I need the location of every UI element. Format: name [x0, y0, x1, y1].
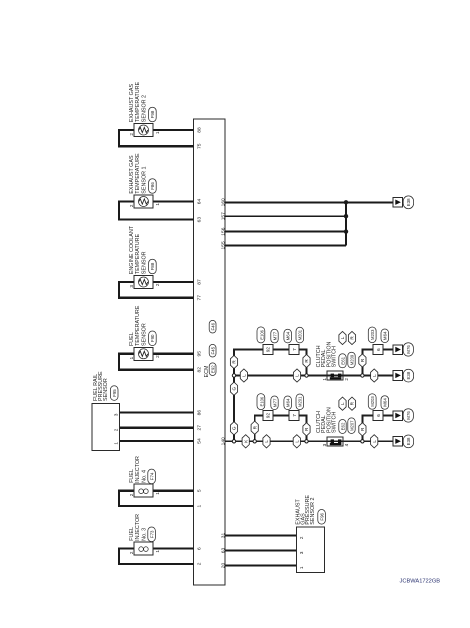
svg-text:JCBWA1722GB: JCBWA1722GB [400, 579, 441, 585]
svg-text:1: 1 [155, 131, 160, 134]
bus wire [345, 202, 347, 245]
exhaust gas pressure sensor 2 [295, 495, 325, 573]
wire pin 155 [225, 244, 346, 246]
svg-text:INJECTOR: INJECTOR [135, 514, 141, 541]
hexagon L [371, 369, 378, 382]
off-page arrow to E38 (bus) [393, 196, 414, 209]
exhaust gas temperature sensor 2 [129, 81, 160, 136]
ECM pin numbers bottom edge [221, 198, 227, 568]
junction dot [344, 214, 348, 218]
connector E38 [403, 435, 413, 448]
svg-text:TEMPERATURE: TEMPERATURE [135, 233, 141, 274]
svg-text:SENSOR: SENSOR [103, 378, 109, 401]
pass-through terminal 92 [263, 410, 273, 420]
connector M201 [296, 327, 304, 343]
switch S1 contact box [327, 437, 343, 446]
svg-text:M64: M64 [286, 398, 291, 407]
option hexagons row A left [230, 382, 310, 448]
fuel rail pressure sensor [92, 371, 119, 450]
connector M64 [381, 396, 389, 410]
connector M76 [403, 409, 413, 422]
svg-text:M203: M203 [370, 329, 375, 340]
connector M76 [403, 343, 413, 356]
connector F86 [149, 179, 157, 194]
svg-text:E106: E106 [260, 396, 265, 406]
svg-text:M203: M203 [370, 396, 375, 407]
row B after-switch elements [359, 327, 389, 382]
svg-text:M209: M209 [349, 354, 354, 365]
off-page arrow to M76 row B [393, 343, 414, 356]
connector E38 [403, 196, 413, 209]
wire pin1 to ECM 88 [153, 129, 193, 131]
svg-text:M77: M77 [272, 331, 277, 340]
svg-text:F74: F74 [149, 472, 154, 480]
connector F46 [209, 320, 216, 333]
connector E106 [257, 327, 265, 343]
wire pin1 to ECM 5 [153, 490, 193, 492]
fuel temperature sensor [129, 305, 160, 360]
svg-text:75: 75 [197, 143, 203, 149]
svg-text:1: 1 [299, 566, 304, 569]
svg-text:63: 63 [197, 217, 203, 223]
fuel temperature sensor circuit wires [119, 354, 193, 370]
svg-text:F95: F95 [112, 389, 117, 397]
junction [253, 440, 256, 443]
svg-text:1: 1 [129, 356, 134, 359]
svg-text:L: L [242, 374, 247, 377]
hexagon L [339, 331, 346, 344]
exhaust gas temperature sensor 2 circuit wires [119, 130, 193, 146]
svg-text:L: L [372, 374, 377, 377]
svg-text:SENSOR 2: SENSOR 2 [310, 497, 316, 524]
connector M64 [381, 329, 389, 343]
svg-text:TEMPERATURE: TEMPERATURE [135, 305, 141, 346]
svg-text:2: 2 [129, 133, 134, 136]
connector M209 [348, 352, 355, 368]
svg-text:SENSOR 1: SENSOR 1 [142, 166, 148, 193]
svg-text:L: L [295, 440, 300, 443]
fuel injector No.4 circuit wires [119, 491, 193, 506]
svg-text:6: 6 [197, 547, 203, 550]
svg-text:1: 1 [322, 378, 327, 381]
row A after-switch elements [359, 394, 389, 448]
wire RHD loop A [255, 416, 307, 442]
svg-text:F88: F88 [150, 262, 155, 270]
wire pin3 to ECM 77 [119, 282, 193, 298]
junction [232, 374, 235, 377]
shield ground bus wires pins 160 157 156 155 [225, 200, 393, 245]
wire pin 156 [225, 231, 346, 233]
off-page arrow to E38 row A [393, 435, 414, 448]
svg-text:L: L [264, 440, 269, 443]
connector E106 [257, 394, 265, 410]
svg-text:4: 4 [344, 443, 349, 446]
svg-text:7: 7 [292, 348, 297, 351]
wire pin3 to ECM 63 [225, 549, 297, 551]
connector E62 [339, 420, 346, 434]
svg-text:E106: E106 [260, 329, 265, 339]
svg-text:3: 3 [299, 551, 304, 554]
off-page arrow to E38 row B [393, 369, 414, 382]
wire below switch A [343, 440, 393, 442]
hexagon L [293, 435, 300, 448]
svg-text:FUEL: FUEL [129, 332, 135, 346]
svg-text:L: L [340, 336, 345, 339]
connector M77 [271, 396, 278, 410]
svg-text:EXHAUST GAS: EXHAUST GAS [129, 155, 135, 194]
svg-text:M76: M76 [406, 345, 411, 354]
svg-text:F46: F46 [210, 322, 215, 330]
connector F95 [110, 386, 118, 401]
wire link to row B [233, 376, 235, 442]
svg-text:54: 54 [197, 438, 203, 444]
svg-text:F96: F96 [319, 512, 324, 520]
svg-text:2: 2 [114, 428, 119, 431]
svg-text:M77: M77 [272, 398, 277, 407]
connector E92 [209, 363, 216, 376]
svg-text:3: 3 [114, 413, 119, 416]
svg-text:No. 4: No. 4 [142, 470, 148, 483]
svg-text:SENSOR 2: SENSOR 2 [142, 95, 148, 122]
svg-text:5: 5 [197, 489, 203, 492]
connector E61 [339, 354, 346, 368]
junction [361, 374, 364, 377]
svg-text:2: 2 [155, 283, 160, 286]
svg-text:95: 95 [197, 351, 203, 357]
svg-text:E38: E38 [406, 198, 411, 206]
svg-text:L: L [295, 374, 300, 377]
hexagon L [240, 369, 247, 382]
exhaust gas pressure sensor 2 wires [225, 536, 297, 566]
off-page arrow to M76 row A [393, 409, 414, 422]
wire RHD branch B to M76 [362, 350, 392, 376]
svg-text:FUEL: FUEL [129, 469, 135, 483]
svg-text:M64: M64 [383, 331, 388, 340]
svg-text:G: G [232, 386, 237, 390]
hexagon R [348, 397, 355, 410]
wire pin1 to ECM 20 [225, 564, 297, 566]
svg-text:2: 2 [129, 204, 134, 207]
clutch pedal position switch B [316, 331, 356, 380]
svg-text:SWITCH: SWITCH [332, 346, 338, 367]
wire pin2 to ECM 87 [153, 281, 193, 283]
svg-text:6: 6 [376, 414, 381, 417]
hexagon R [303, 423, 310, 436]
clutch pedal position switch circuit row A wires [225, 376, 393, 442]
svg-text:86: 86 [197, 410, 203, 416]
wire ECM 140 feed [225, 440, 327, 442]
connector F98 [149, 107, 157, 122]
svg-text:1: 1 [155, 492, 160, 495]
wire pin2 to ECM 2 [119, 549, 193, 564]
svg-text:82: 82 [197, 367, 203, 373]
wire pin2 to ECM 63 [119, 202, 193, 220]
hexagon R [359, 423, 366, 436]
wire pin 157 [225, 215, 346, 217]
ECM pin numbers top edge [197, 127, 203, 565]
connector F45 [209, 344, 216, 357]
svg-text:1: 1 [197, 504, 203, 507]
wire RHD loop B [234, 350, 307, 376]
pass-through terminal 6 [373, 410, 383, 420]
wire pin2 to ECM 27 [120, 427, 194, 429]
svg-text:E92: E92 [210, 365, 215, 373]
connector F90 [149, 331, 157, 346]
svg-text:2: 2 [155, 355, 160, 358]
exhaust gas temperature sensor 1 [129, 153, 160, 208]
fuel injector No.3 [129, 514, 160, 555]
hexagon R [303, 354, 310, 367]
svg-text:M64: M64 [383, 398, 388, 407]
svg-text:M76: M76 [406, 411, 411, 420]
svg-text:No. 3: No. 3 [142, 528, 148, 541]
engine coolant temperature sensor [129, 225, 160, 288]
connector M203 [368, 394, 376, 410]
svg-text:2: 2 [129, 551, 134, 554]
connector M201 [296, 394, 304, 410]
svg-text:6: 6 [376, 348, 381, 351]
hexagon R [251, 421, 258, 434]
svg-text:M201: M201 [298, 396, 303, 407]
hexagon L [293, 369, 300, 382]
svg-text:SWITCH: SWITCH [332, 412, 338, 433]
svg-text:TEMPERATURE: TEMPERATURE [135, 81, 141, 122]
wire pin2 to ECM 75 [119, 130, 193, 146]
wire pin1 to ECM 82 [119, 354, 193, 370]
wire pin1 to ECM 54 [120, 440, 194, 442]
svg-text:92: 92 [266, 413, 271, 419]
hexagon G [230, 422, 237, 435]
pass-through connectors row A [257, 394, 304, 421]
svg-text:7: 7 [292, 414, 297, 417]
wire RHD branch A to M76 [362, 416, 392, 442]
svg-text:EXHAUST GAS: EXHAUST GAS [129, 84, 135, 123]
wire pin3 to ECM 86 [120, 412, 194, 414]
hexagon G [230, 382, 237, 395]
hexagon R [230, 355, 237, 368]
connector F88 [149, 259, 157, 274]
exhaust gas temperature sensor 1 circuit wires [119, 202, 193, 220]
svg-text:3: 3 [322, 443, 327, 446]
svg-text:E38: E38 [406, 437, 411, 445]
svg-text:ENGINE COOLANT: ENGINE COOLANT [129, 225, 135, 274]
svg-text:2: 2 [129, 493, 134, 496]
svg-text:87: 87 [197, 279, 203, 285]
svg-text:M201: M201 [298, 329, 303, 340]
svg-text:SENSOR: SENSOR [142, 251, 148, 274]
svg-text:E38: E38 [406, 371, 411, 379]
svg-text:FUEL: FUEL [129, 527, 135, 541]
fuel injector No.4 [129, 456, 160, 497]
connector M203 [368, 327, 376, 343]
svg-text:F98: F98 [150, 110, 155, 118]
svg-text:M64: M64 [286, 331, 291, 340]
junction [232, 440, 235, 443]
svg-text:2: 2 [197, 562, 203, 565]
junction dot [344, 200, 348, 204]
svg-text:77: 77 [197, 295, 203, 301]
svg-text:88: 88 [197, 127, 203, 133]
switch S2 contact box [327, 371, 343, 380]
svg-text:F90: F90 [150, 334, 155, 342]
wire pin 160 [225, 201, 393, 203]
svg-text:27: 27 [197, 425, 203, 431]
pass-through connectors row B [257, 327, 304, 355]
junction dot [344, 229, 348, 233]
svg-text:1: 1 [155, 203, 160, 206]
pass-through terminal 6 [373, 345, 383, 355]
connector F73 [148, 527, 156, 542]
connector M64 [284, 396, 292, 410]
hexagon R [348, 331, 355, 344]
svg-text:2: 2 [299, 536, 304, 539]
svg-text:F45: F45 [210, 346, 215, 354]
svg-text:INJECTOR: INJECTOR [135, 456, 141, 483]
svg-text:2: 2 [344, 378, 349, 381]
wire pin2 to ECM 1 [119, 491, 193, 506]
connector M64 [284, 329, 292, 343]
svg-text:3: 3 [129, 285, 134, 288]
connector F74 [148, 469, 156, 484]
connector M77 [271, 329, 278, 343]
svg-text:TEMPERATURE: TEMPERATURE [135, 153, 141, 194]
svg-text:1: 1 [155, 550, 160, 553]
wire pin2 to ECM 95 [153, 353, 193, 355]
connector E38 [403, 369, 413, 382]
clutch pedal position switch A [316, 397, 356, 446]
hexagon K [242, 435, 249, 448]
wire pin2 to ECM 31 [225, 534, 297, 536]
svg-text:L: L [340, 402, 345, 405]
clutch pedal position switch circuit row B wires [234, 350, 393, 376]
ECM U1 [193, 119, 225, 585]
wire pin1 to ECM 64 [153, 200, 193, 202]
wire pin1 to ECM 6 [153, 547, 193, 549]
hexagon L [371, 435, 378, 448]
svg-text:92: 92 [266, 347, 271, 353]
svg-text:M207: M207 [349, 420, 354, 431]
junction [305, 374, 308, 377]
connector F96 [318, 510, 326, 525]
hexagon R [359, 354, 366, 367]
svg-text:E62: E62 [340, 422, 345, 430]
engine coolant temperature sensor circuit wires [119, 282, 193, 298]
hexagon L [339, 397, 346, 410]
fuel rail pressure sensor wires [120, 413, 194, 441]
svg-text:F86: F86 [150, 182, 155, 190]
svg-text:E61: E61 [340, 356, 345, 364]
junction [361, 440, 364, 443]
wire below switch B [343, 375, 393, 377]
hexagon L [263, 435, 270, 448]
svg-text:1: 1 [114, 442, 119, 445]
option hexagons row B left [230, 354, 310, 382]
svg-text:SENSOR: SENSOR [142, 323, 148, 346]
pass-through terminal 7 [289, 345, 299, 355]
pass-through terminal 92 [263, 345, 273, 355]
wire main B [234, 375, 327, 377]
pass-through terminal 7 [289, 410, 299, 420]
svg-text:G: G [232, 426, 237, 430]
svg-text:64: 64 [197, 199, 203, 205]
svg-text:F73: F73 [149, 530, 154, 538]
fuel injector No.3 circuit wires [119, 549, 193, 564]
svg-text:L: L [372, 440, 377, 443]
junction [305, 440, 308, 443]
connector M207 [348, 418, 355, 434]
